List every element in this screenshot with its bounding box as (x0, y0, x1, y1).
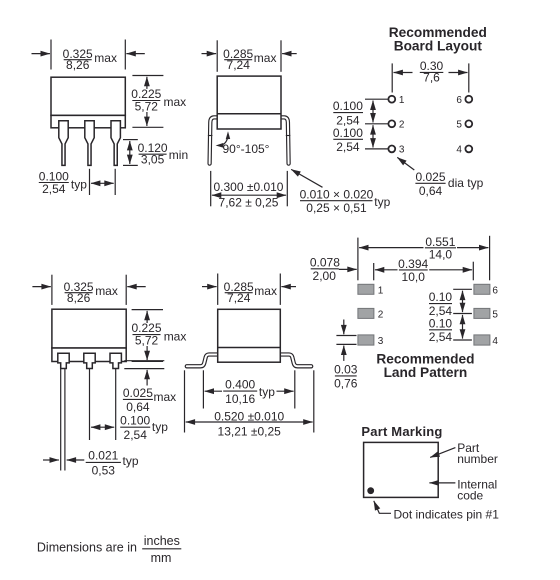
right formed lead (280, 117, 288, 163)
dim 0.285 arrows (202, 286, 217, 288)
package body (DIP side) (217, 76, 281, 129)
svg-text:0,76: 0,76 (334, 377, 358, 391)
svg-text:max: max (154, 390, 177, 404)
svg-text:Dimensions are in: Dimensions are in (37, 541, 137, 555)
hole 6 (465, 96, 472, 103)
svg-text:4: 4 (456, 145, 462, 156)
package base strip (52, 348, 126, 362)
svg-text:dia typ: dia typ (448, 176, 484, 190)
dim 0.400 arrows (205, 390, 222, 392)
pitch double arrow pads 5-4 (462, 315, 464, 339)
body parting line (218, 347, 281, 349)
package body (SMD side) (218, 309, 281, 362)
svg-text:14,0: 14,0 (429, 248, 453, 262)
hole tick line 1 (365, 98, 388, 100)
svg-text:max: max (164, 329, 187, 343)
svg-text:2,54: 2,54 (42, 182, 66, 196)
svg-text:7,6: 7,6 (423, 71, 440, 85)
hole 2 (388, 120, 395, 127)
dim 0.520 arrow line (186, 421, 313, 423)
dim 0.285/7,24 max : extension lines (217, 274, 219, 305)
svg-text:mm: mm (151, 551, 172, 565)
svg-text:8,26: 8,26 (67, 291, 91, 305)
dim 0.225/5,72 max : reference lines (132, 309, 163, 311)
svg-text:number: number (457, 452, 498, 466)
svg-text:max: max (164, 95, 187, 109)
hole tick line 2 (365, 123, 388, 125)
pin 2 (85, 121, 94, 166)
dim 0.100/2,54 typ double arrow (91, 426, 114, 428)
leader internal code (429, 482, 455, 484)
pin 1 dot (367, 487, 374, 494)
svg-text:6: 6 (456, 95, 462, 106)
pad pitch tick 4 (453, 339, 472, 341)
dim 0.300 arrow line (212, 194, 286, 196)
dim 0.520/13,21 : extension lines (184, 370, 186, 432)
pin 2 stub (84, 353, 95, 368)
svg-text:typ: typ (123, 454, 139, 468)
svg-text:0.100: 0.100 (333, 126, 363, 140)
dim 0.325/8,26 max : extension lines (51, 275, 53, 305)
dim 0.325 arrows (32, 286, 50, 288)
svg-text:typ: typ (152, 420, 168, 434)
pin 1 (59, 121, 68, 166)
svg-text:8,26: 8,26 (66, 58, 90, 72)
svg-text:0.10: 0.10 (429, 316, 453, 330)
svg-text:2: 2 (399, 120, 405, 131)
svg-text:5: 5 (456, 120, 462, 131)
dim 0.03 tick lines (336, 335, 356, 337)
svg-text:0.400: 0.400 (225, 378, 255, 392)
left gull-wing lead (187, 355, 218, 367)
package body (SMD front) (52, 309, 126, 348)
dim 0.30 arrows (394, 72, 413, 74)
left formed lead (210, 117, 218, 163)
leader part number (430, 448, 455, 458)
svg-text:0.025: 0.025 (123, 386, 153, 400)
hole 3 (388, 146, 395, 153)
svg-text:5: 5 (492, 309, 498, 320)
svg-text:0.021: 0.021 (88, 449, 118, 463)
dim 0.078 arrow (339, 268, 357, 270)
dim 0.021/0,53 typ arrows (43, 459, 59, 461)
pad 1 (358, 284, 374, 294)
svg-text:7,24: 7,24 (227, 291, 251, 305)
body parting line (217, 113, 281, 115)
svg-text:0.078: 0.078 (310, 256, 340, 270)
svg-text:0.520 ±0.010: 0.520 ±0.010 (214, 409, 284, 423)
svg-text:5,72: 5,72 (135, 333, 159, 347)
pitch double arrow holes 2-3 (372, 125, 374, 147)
pad 3 (358, 335, 374, 345)
dim 0.394 arrows (375, 269, 398, 271)
hole tick line 3 (365, 148, 388, 150)
dim 0.225 arrows (146, 311, 148, 323)
svg-text:0.03: 0.03 (334, 363, 358, 377)
svg-text:3,05: 3,05 (141, 152, 165, 166)
dim 0.225/5,72 max : reference lines (132, 75, 163, 77)
svg-text:2,00: 2,00 (313, 269, 337, 283)
hole 5 (465, 120, 472, 127)
svg-text:Part Marking: Part Marking (361, 424, 442, 439)
svg-text:7,62 ± 0,25: 7,62 ± 0,25 (219, 196, 279, 210)
svg-text:0.394: 0.394 (398, 257, 428, 271)
dim 0.300 : extension lines (210, 171, 212, 206)
pin 1 edge extension lines (60, 369, 62, 471)
dim 0.120/3,05 min : reference lines (123, 139, 138, 141)
svg-text:4: 4 (492, 336, 498, 347)
pad 5 (474, 308, 490, 318)
pin 3 stub (110, 353, 121, 368)
pin 1 stub (58, 353, 69, 368)
package base strip (51, 115, 125, 127)
pitch double arrow holes 1-2 (372, 101, 374, 123)
dim 0.394/10,0 : extension lines (373, 263, 375, 280)
pin 3 (111, 121, 120, 166)
svg-text:1: 1 (399, 95, 405, 106)
pad pitch tick 6 (453, 288, 472, 290)
svg-text:6: 6 (492, 285, 498, 296)
pad 4 (474, 335, 490, 345)
svg-text:2,54: 2,54 (336, 140, 360, 154)
dim 0.551/14,0 : extension lines (357, 238, 359, 281)
svg-text:Land Pattern: Land Pattern (384, 365, 468, 380)
svg-text:max: max (254, 284, 277, 298)
dim 0.551 arrows (359, 247, 423, 249)
dim 0.100/2,54 typ : extension lines (89, 169, 91, 195)
dim 0.025 up arrow (146, 370, 148, 386)
svg-text:0,64: 0,64 (419, 184, 443, 198)
svg-text:max: max (254, 51, 277, 65)
svg-text:0.025: 0.025 (415, 170, 445, 184)
package body (DIP front) (51, 77, 125, 115)
pin 3 center extension line (115, 369, 117, 441)
svg-text:7,24: 7,24 (227, 58, 251, 72)
svg-text:0,53: 0,53 (92, 464, 116, 478)
svg-text:inches: inches (144, 534, 180, 548)
svg-text:2,54: 2,54 (124, 428, 148, 442)
pin 2 center extension line (89, 369, 91, 441)
svg-text:max: max (95, 284, 118, 298)
svg-text:min: min (169, 148, 188, 162)
svg-text:5,72: 5,72 (135, 99, 159, 113)
dim 0.225 arrows (146, 77, 148, 89)
svg-text:0.100: 0.100 (333, 99, 363, 113)
dim 0.285 arrows (202, 53, 217, 55)
svg-text:3: 3 (378, 336, 384, 347)
svg-text:0.300 ±0.010: 0.300 ±0.010 (214, 180, 284, 194)
svg-text:typ: typ (374, 195, 390, 209)
pitch double arrow pads 6-5 (462, 291, 464, 312)
hole 1 (388, 96, 395, 103)
svg-text:90°-105°: 90°-105° (223, 142, 270, 156)
dim 0.100 double arrow (91, 182, 114, 184)
marking outline box (364, 442, 439, 497)
svg-text:code: code (457, 488, 483, 502)
svg-text:typ: typ (259, 385, 275, 399)
dim 0.025/0,64 max : reference lines (124, 360, 164, 362)
pad 2 (358, 308, 374, 318)
dim 0.325 arrows (32, 53, 50, 55)
leader for hole dia (397, 157, 414, 170)
svg-text:max: max (94, 51, 117, 65)
svg-text:13,21 ±0,25: 13,21 ±0,25 (218, 425, 282, 439)
hole 4 (465, 146, 472, 153)
dim 0.285/7,24 max : extension lines (216, 40, 218, 72)
svg-text:0.10: 0.10 (429, 290, 453, 304)
svg-text:0,64: 0,64 (126, 400, 150, 414)
svg-text:2: 2 (378, 309, 384, 320)
svg-text:0.100: 0.100 (120, 414, 150, 428)
lead angle arrow 90-105 (220, 138, 228, 146)
dim 0.120 double arrow (129, 141, 131, 164)
svg-text:10,0: 10,0 (402, 270, 426, 284)
dim 0.400/10,16 typ : extension lines (202, 370, 204, 408)
svg-text:1: 1 (378, 285, 384, 296)
right gull-wing lead (280, 355, 311, 367)
svg-text:Board Layout: Board Layout (394, 39, 483, 54)
lead bend tick marks (208, 135, 213, 137)
svg-text:3: 3 (399, 145, 405, 156)
svg-text:10,16: 10,16 (225, 392, 255, 406)
svg-text:Dot indicates pin #1: Dot indicates pin #1 (394, 507, 500, 521)
dim 0.03 up arrow (343, 346, 345, 361)
dim 0.03 down arrow (343, 320, 345, 335)
dim 0.325/8,26 max : extension lines (50, 40, 52, 70)
leader dot indicates pin 1 (374, 501, 391, 513)
leader for lead cross-section 0.010x0.020 (291, 169, 322, 187)
pad pitch tick 5 (453, 313, 472, 315)
svg-text:2,54: 2,54 (429, 330, 453, 344)
svg-text:0,25 × 0,51: 0,25 × 0,51 (306, 201, 367, 215)
pad 6 (474, 284, 490, 294)
dim 0.30/7,6 : extension lines (391, 63, 393, 92)
svg-text:0.010 × 0.020: 0.010 × 0.020 (300, 188, 374, 202)
svg-text:typ: typ (71, 178, 87, 192)
